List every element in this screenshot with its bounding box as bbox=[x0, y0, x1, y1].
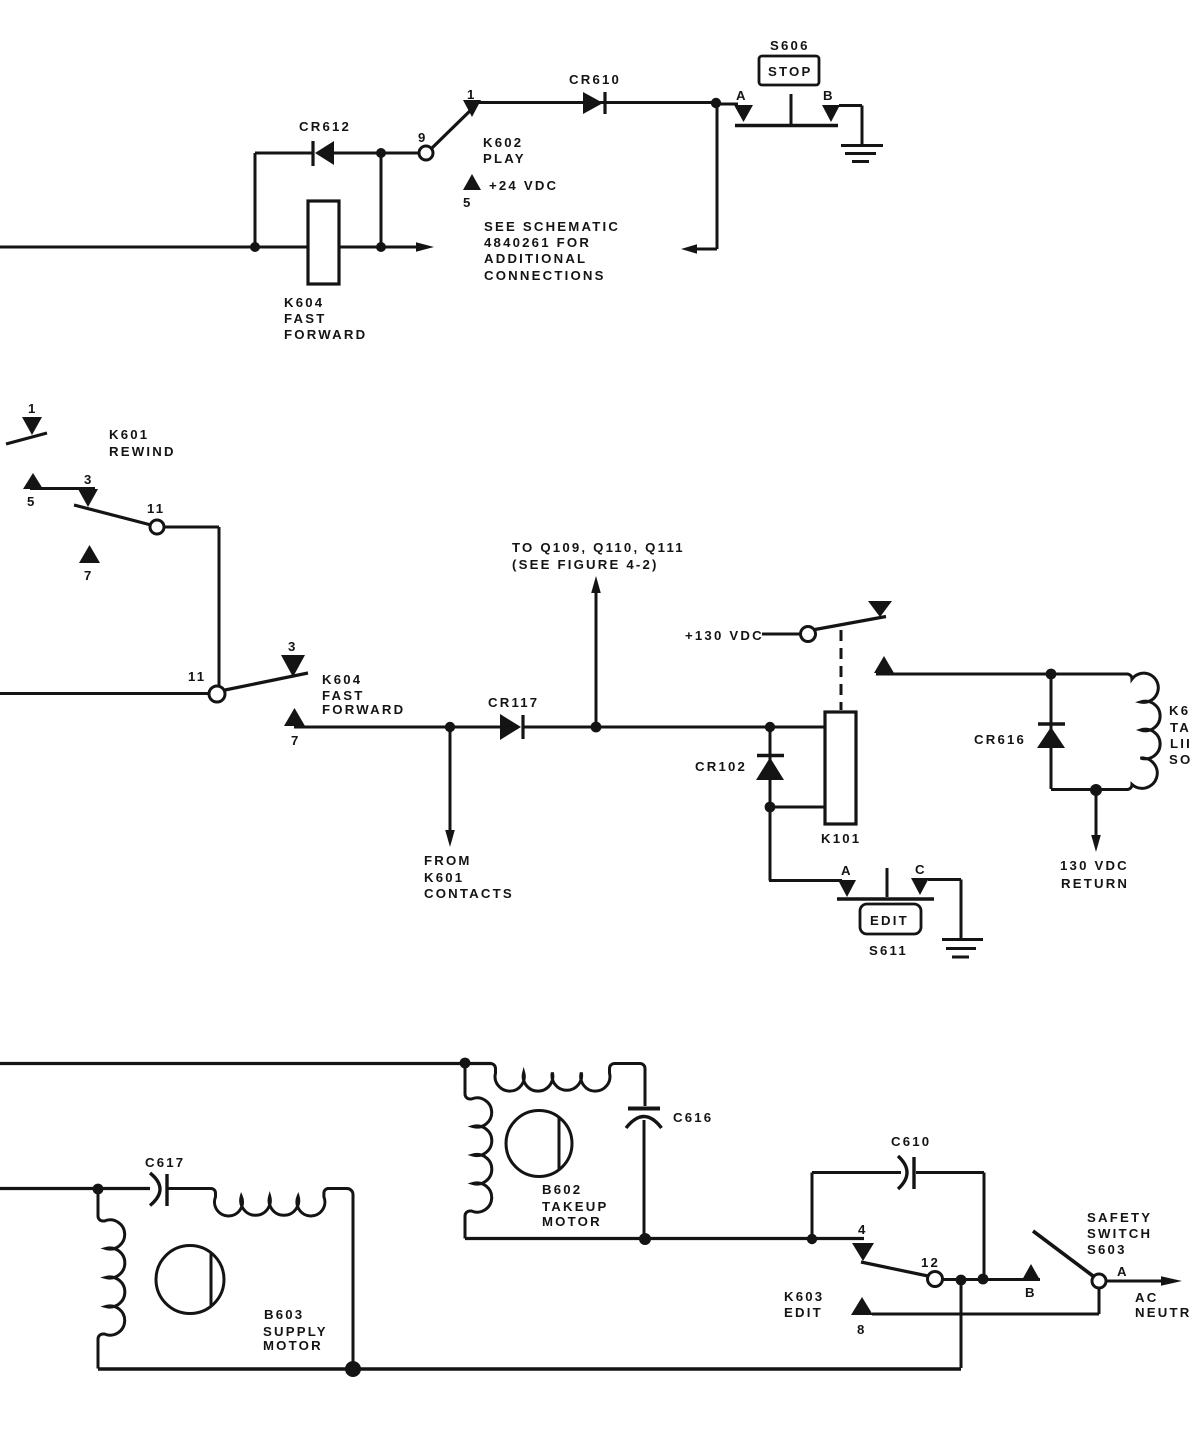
svg-text:PLAY: PLAY bbox=[483, 151, 526, 166]
relay coil K604 (top section) bbox=[284, 201, 367, 342]
contact 4 of K603 bbox=[852, 1222, 874, 1261]
switch K604 blade 11-to-3 bbox=[225, 673, 308, 690]
node: junction at CR616 top bbox=[1046, 669, 1057, 680]
svg-text:5: 5 bbox=[463, 195, 473, 210]
diode CR610 bbox=[569, 72, 621, 114]
diode CR616 bbox=[974, 674, 1065, 789]
note text: see schematic bbox=[484, 219, 620, 283]
contact C of S611 bbox=[911, 862, 929, 895]
node: big junction on bottom wire bbox=[345, 1361, 361, 1377]
svg-text:1: 1 bbox=[28, 401, 38, 416]
node: junction at TO-Q109 riser bbox=[591, 722, 602, 733]
diode CR612 bbox=[299, 119, 351, 166]
svg-text:EDIT: EDIT bbox=[784, 1305, 823, 1320]
svg-text:B603: B603 bbox=[264, 1307, 304, 1322]
svg-text:12: 12 bbox=[921, 1255, 940, 1270]
contact 7 of K601 bbox=[79, 545, 100, 583]
contact 3 of K601 bbox=[78, 472, 98, 507]
svg-text:C617: C617 bbox=[145, 1155, 185, 1170]
svg-text:8: 8 bbox=[857, 1322, 867, 1337]
wire: vertical tie between loop and main wire bbox=[380, 153, 383, 247]
svg-text:K6: K6 bbox=[1169, 703, 1190, 718]
contact 3 of K604 bbox=[281, 639, 305, 677]
svg-text:SO: SO bbox=[1169, 752, 1192, 767]
svg-text:STOP: STOP bbox=[768, 64, 812, 79]
svg-text:TO Q109, Q110, Q111: TO Q109, Q110, Q111 bbox=[512, 540, 685, 555]
svg-text:AC: AC bbox=[1135, 1290, 1158, 1305]
wire: riser arrow to Q109/Q110/Q111 bbox=[512, 540, 685, 727]
svg-text:SUPPLY: SUPPLY bbox=[263, 1324, 328, 1339]
wire: return path down from junction with left arrow bbox=[681, 103, 717, 254]
label K602 PLAY bbox=[483, 135, 526, 166]
capacitor C616 bbox=[626, 1109, 713, 1240]
contact feeding K6 solenoid bbox=[874, 656, 894, 673]
contact 8 of K603 bbox=[851, 1297, 873, 1337]
svg-text:CR616: CR616 bbox=[974, 732, 1026, 747]
svg-text:5: 5 bbox=[27, 494, 37, 509]
svg-text:7: 7 bbox=[84, 568, 94, 583]
svg-text:CONNECTIONS: CONNECTIONS bbox=[484, 268, 606, 283]
svg-text:A: A bbox=[1117, 1264, 1129, 1279]
wire: stub to contact 9 bbox=[381, 152, 419, 155]
svg-text:CR612: CR612 bbox=[299, 119, 351, 134]
wire: down leg to bottom AC wire bbox=[960, 1280, 963, 1368]
svg-text:LII: LII bbox=[1170, 736, 1192, 751]
contact 12 of K603 (movable) bbox=[921, 1255, 943, 1287]
pushbutton S611 EDIT bbox=[837, 868, 934, 958]
node: junction dot top of vertical tie bbox=[376, 148, 386, 158]
contact 5 (+24 VDC feed) bbox=[463, 174, 558, 210]
wire: second row feed from left edge bbox=[0, 692, 208, 695]
wire: dashed actuator link to K101 bbox=[840, 630, 843, 710]
wire: +130 VDC feed bbox=[685, 628, 800, 643]
svg-text:4: 4 bbox=[858, 1222, 868, 1237]
svg-text:11: 11 bbox=[188, 669, 206, 684]
svg-text:REWIND: REWIND bbox=[109, 444, 176, 459]
node: junction at B602 bbox=[460, 1058, 471, 1069]
wire: CR102 bottom to K101 bbox=[770, 806, 825, 809]
svg-text:S611: S611 bbox=[869, 943, 908, 958]
contact 1 of K602 bbox=[463, 87, 481, 117]
wire: AC NEUTRAL output arrow bbox=[1106, 1276, 1191, 1320]
svg-text:11: 11 bbox=[147, 501, 165, 516]
svg-text:TA: TA bbox=[1170, 720, 1191, 735]
wire: solenoid top feed bbox=[876, 673, 1128, 676]
svg-text:SEE SCHEMATIC: SEE SCHEMATIC bbox=[484, 219, 620, 234]
wire: down and right to S611 contact A bbox=[769, 807, 842, 881]
svg-text:(SEE FIGURE 4-2): (SEE FIGURE 4-2) bbox=[512, 557, 659, 572]
svg-text:3: 3 bbox=[288, 639, 298, 654]
contact B (K603 row) bbox=[1022, 1264, 1040, 1300]
relay K101 bbox=[821, 712, 861, 846]
ground (S606) bbox=[841, 146, 883, 162]
wire: bottom AC wire bbox=[98, 1367, 961, 1371]
wire: main middle wire to K101 bbox=[294, 726, 825, 729]
svg-text:K601: K601 bbox=[109, 427, 149, 442]
node: junction down-leg bbox=[956, 1275, 967, 1286]
node: junction dot right of K604 bbox=[376, 242, 386, 252]
svg-text:FAST: FAST bbox=[284, 311, 327, 326]
svg-text:CR117: CR117 bbox=[488, 695, 539, 710]
svg-text:K604: K604 bbox=[284, 295, 324, 310]
node: junction C610 left leg bbox=[807, 1234, 817, 1244]
wire: contact 12 to contact B bbox=[943, 1278, 1040, 1281]
svg-text:1: 1 bbox=[467, 87, 477, 102]
switch K601 blade (open, under contact 1) bbox=[6, 433, 47, 444]
svg-text:K101: K101 bbox=[821, 831, 861, 846]
wire: contact 8 row to safety switch bbox=[872, 1288, 1099, 1314]
switch K101 movable contact (+130 VDC) bbox=[801, 627, 816, 642]
svg-text:ADDITIONAL: ADDITIONAL bbox=[484, 251, 587, 266]
svg-text:MOTOR: MOTOR bbox=[542, 1214, 602, 1229]
wire: drop arrow FROM K601 CONTACTS bbox=[424, 727, 514, 901]
svg-text:B602: B602 bbox=[542, 1182, 582, 1197]
svg-text:SWITCH: SWITCH bbox=[1087, 1226, 1152, 1241]
wire: solenoid bottom return bbox=[1051, 788, 1128, 791]
wire: CR612 bypass loop left vertical bbox=[254, 153, 257, 247]
wire: top wire from contact 1 to S606 bbox=[472, 101, 716, 104]
node: junction at CR102 bottom bbox=[765, 802, 776, 813]
svg-text:FORWARD: FORWARD bbox=[284, 327, 367, 342]
node: junction at C617 bbox=[93, 1184, 104, 1195]
wire: junction to contact A bbox=[716, 103, 738, 106]
wire: second AC line from left bbox=[0, 1187, 150, 1190]
svg-text:C610: C610 bbox=[891, 1134, 931, 1149]
wire: top-section main horizontal wire with right arrow bbox=[0, 242, 434, 252]
svg-text:A: A bbox=[736, 88, 748, 103]
capacitor C617 bbox=[145, 1155, 211, 1206]
svg-text:K601: K601 bbox=[424, 870, 464, 885]
contact A of S606 bbox=[734, 88, 753, 122]
node: junction at 130 VDC return bbox=[1090, 784, 1102, 796]
capacitor C610 with loop bbox=[812, 1134, 984, 1278]
motor B603 main winding (left coil) bbox=[98, 1189, 125, 1369]
contact A of S611 bbox=[838, 863, 856, 897]
svg-text:SAFETY: SAFETY bbox=[1087, 1210, 1152, 1225]
svg-text:K604: K604 bbox=[322, 672, 362, 687]
contact 11 of K604 (movable) bbox=[188, 669, 225, 702]
switch K101 blade bbox=[815, 617, 886, 630]
switch K602 PLAY contact 9 (movable) bbox=[418, 130, 433, 160]
contact 7 of K604 bbox=[284, 708, 305, 748]
motor B602 rotor circle bbox=[506, 1111, 608, 1230]
svg-text:NEUTR: NEUTR bbox=[1135, 1305, 1191, 1320]
svg-text:CR610: CR610 bbox=[569, 72, 621, 87]
svg-text:3: 3 bbox=[84, 472, 94, 487]
svg-text:B: B bbox=[823, 88, 835, 103]
svg-text:MOTOR: MOTOR bbox=[263, 1338, 323, 1353]
node: junction at FROM-K601 drop bbox=[445, 722, 455, 732]
svg-text:4840261 FOR: 4840261 FOR bbox=[484, 235, 591, 250]
svg-text:FAST: FAST bbox=[322, 688, 365, 703]
svg-text:S603: S603 bbox=[1087, 1242, 1127, 1257]
switch K602 blade 9-to-1 bbox=[432, 104, 477, 148]
svg-text:FORWARD: FORWARD bbox=[322, 702, 405, 717]
node: junction dot left of K604 bbox=[250, 242, 260, 252]
node: junction C610 right leg bbox=[978, 1274, 989, 1285]
svg-text:RETURN: RETURN bbox=[1061, 876, 1129, 891]
node: junction C616 bottom bbox=[639, 1233, 651, 1245]
switch K603 blade 4-to-12 bbox=[861, 1262, 928, 1276]
contact B of S606 bbox=[822, 88, 840, 122]
wire: B602 bottom wire bbox=[465, 1237, 864, 1240]
svg-text:S606: S606 bbox=[770, 38, 810, 53]
wire: 130 VDC RETURN arrow bbox=[1060, 790, 1129, 891]
svg-text:C: C bbox=[915, 862, 927, 877]
contact A of S603 (movable) bbox=[1092, 1264, 1129, 1288]
contact 11 of K601 (movable) bbox=[147, 501, 165, 534]
svg-text:TAKEUP: TAKEUP bbox=[542, 1199, 608, 1214]
svg-text:K603: K603 bbox=[784, 1289, 824, 1304]
svg-text:CONTACTS: CONTACTS bbox=[424, 886, 514, 901]
svg-text:FROM: FROM bbox=[424, 853, 472, 868]
svg-text:7: 7 bbox=[291, 733, 301, 748]
label K601 REWIND bbox=[109, 427, 176, 459]
wire: coil to right leg of B603 bbox=[327, 1189, 353, 1370]
contact 5 of K601 bbox=[23, 473, 43, 509]
contact 1 of K601 bbox=[22, 401, 42, 435]
svg-text:K602: K602 bbox=[483, 135, 523, 150]
wire: bottom-section top wire (AC line) bbox=[0, 1062, 491, 1065]
svg-text:A: A bbox=[841, 863, 853, 878]
coil K6xx takeup lifter solenoid bbox=[1127, 673, 1192, 789]
svg-text:130 VDC: 130 VDC bbox=[1060, 858, 1129, 873]
switch K601 blade 3-to-11 bbox=[74, 505, 151, 525]
wire: CR612 loop top horizontal bbox=[255, 152, 381, 155]
svg-text:B: B bbox=[1025, 1285, 1037, 1300]
motor B603 start winding (top coil) bbox=[211, 1189, 328, 1216]
motor B602 start winding (top coil) bbox=[491, 1064, 615, 1092]
diode CR117 bbox=[488, 695, 539, 740]
svg-text:9: 9 bbox=[418, 130, 428, 145]
svg-text:EDIT: EDIT bbox=[870, 913, 909, 928]
switch S603 safety blade bbox=[1033, 1210, 1152, 1276]
node: junction at S606 contact A feed bbox=[711, 98, 721, 108]
diode CR102 bbox=[695, 727, 784, 807]
label K603 EDIT bbox=[784, 1289, 824, 1320]
svg-text:+24 VDC: +24 VDC bbox=[489, 178, 558, 193]
label K604 FAST FORWARD bbox=[322, 672, 405, 717]
ground (S611) bbox=[942, 940, 983, 958]
wire: coil to C616 corner bbox=[614, 1064, 645, 1107]
wire: contact B to ground bbox=[839, 106, 862, 145]
motor B603 rotor circle bbox=[156, 1246, 328, 1354]
wire: from contact 11 right then down to K604 row bbox=[164, 527, 219, 687]
pushbutton S606 STOP bbox=[735, 38, 838, 126]
fixed contact (upper right, +130 switch) bbox=[868, 601, 892, 617]
node: junction at CR102 top bbox=[765, 722, 775, 732]
svg-text:C616: C616 bbox=[673, 1110, 713, 1125]
motor B602 main winding (left coil) bbox=[465, 1063, 492, 1239]
wire: contact C to ground bbox=[928, 880, 961, 939]
wire: contact 5 to contact 3 bar bbox=[30, 487, 95, 490]
svg-text:+130 VDC: +130 VDC bbox=[685, 628, 764, 643]
svg-text:CR102: CR102 bbox=[695, 759, 747, 774]
